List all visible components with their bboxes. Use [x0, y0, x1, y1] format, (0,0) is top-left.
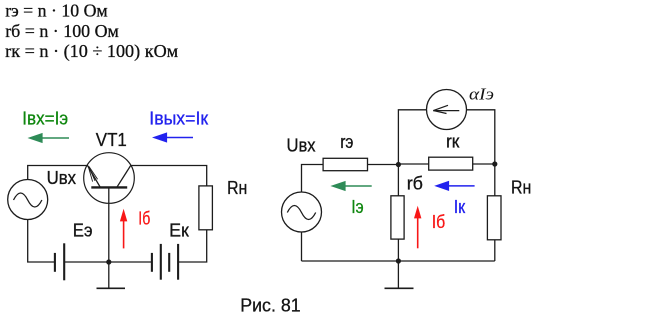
wire: rб bottom to bottom rail — [397, 239, 399, 261]
wire: Rн bottom to Ек — [178, 230, 207, 262]
wire: Ек to junction — [109, 261, 152, 263]
svg-text:Iэ: Iэ — [351, 197, 363, 217]
wire: rэ to node A — [368, 164, 399, 166]
resistor rэ — [323, 158, 367, 170]
wire: collector to Rн top corner — [131, 166, 207, 187]
wire: right source bottom to rail — [301, 232, 303, 261]
svg-text:Рис. 81: Рис. 81 — [240, 295, 301, 315]
current arrow Iк (blue, right circuit) — [434, 181, 474, 191]
battery Еэ — [55, 243, 64, 280]
wire: junction to Еэ — [64, 261, 109, 263]
svg-text:VT1: VT1 — [96, 130, 127, 150]
ac source V1 (Uвх) — [8, 180, 48, 220]
svg-text:rб = n · 100 Ом: rб = n · 100 Ом — [5, 21, 119, 41]
current source αIэ — [427, 90, 467, 130]
svg-text:rк = n · (10 ÷ 100) кОм: rк = n · (10 ÷ 100) кОм — [5, 41, 178, 62]
wire: rк to node B — [473, 163, 495, 165]
resistor Rн (left circuit) — [199, 186, 213, 230]
battery Ек — [152, 244, 178, 280]
svg-text:Rн: Rн — [227, 178, 247, 198]
ground (right circuit) — [385, 261, 414, 288]
svg-text:Uвх: Uвх — [287, 135, 316, 155]
junction dot (left circuit) — [106, 259, 111, 264]
wire: base lead down to junction — [108, 187, 110, 262]
svg-text:Iвх=Iэ: Iвх=Iэ — [22, 108, 68, 128]
svg-text:rэ = n · 10 Ом: rэ = n · 10 Ом — [5, 1, 108, 21]
current arrow Iвх (green, left) — [28, 133, 70, 143]
wire: node A to rк — [398, 163, 428, 165]
transistor VT1 — [84, 153, 135, 204]
resistor rб — [391, 196, 404, 239]
svg-text:Iб: Iб — [432, 212, 446, 232]
current arrow Iб (red, up, left circuit) — [120, 209, 127, 249]
svg-text:Iк: Iк — [454, 197, 466, 217]
resistor Rн (right circuit) — [487, 196, 501, 240]
svg-text:Ек: Ек — [169, 220, 189, 240]
ground (left circuit) — [97, 262, 126, 288]
wire: node A riser to current source — [398, 110, 426, 165]
svg-text:Еэ: Еэ — [73, 220, 93, 240]
junction node B — [492, 161, 497, 166]
junction node A — [396, 162, 401, 167]
ac source V2 (Uвх right) — [282, 192, 322, 232]
junction node C (ground node) — [396, 258, 401, 263]
wire: Rн bottom to bottom rail — [494, 240, 496, 261]
wire: source top to emitter — [28, 166, 88, 180]
current arrow Iб (red, right circuit) — [414, 206, 421, 249]
wire: node B down to Rн right — [494, 164, 496, 196]
wire: node A down to rб — [397, 165, 399, 196]
resistor rк — [429, 157, 473, 170]
wire: right source top to rэ — [302, 165, 324, 193]
svg-text:rк: rк — [446, 131, 460, 151]
current arrow Iэ (green, right circuit) — [330, 181, 371, 191]
svg-text:rэ: rэ — [340, 132, 353, 152]
svg-text:Rн: Rн — [511, 178, 531, 198]
svg-text:Iвых=Iк: Iвых=Iк — [149, 108, 208, 128]
wire: bottom rail — [302, 260, 495, 262]
svg-text:rб: rб — [407, 174, 423, 194]
svg-text:αIэ: αIэ — [469, 85, 494, 104]
svg-text:Iб: Iб — [138, 209, 150, 229]
wire: current source to node B riser — [467, 110, 495, 164]
svg-text:Uвх: Uвх — [47, 168, 77, 188]
wire: Еэ to source bottom — [28, 220, 55, 263]
current arrow Iвых (blue, left) — [152, 132, 193, 142]
